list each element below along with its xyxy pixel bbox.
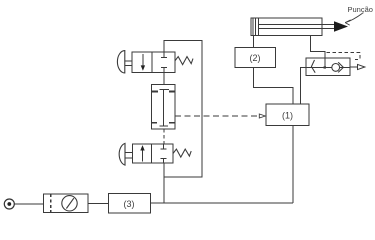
compressed-air source P xyxy=(4,199,14,209)
pilot arrowhead into box (1) xyxy=(259,114,265,118)
leader arrow from label to punch tip xyxy=(345,13,362,25)
box (2) xyxy=(235,47,276,67)
punch cylinder C1 xyxy=(251,18,334,36)
V1 left square with down arrow xyxy=(132,52,152,72)
wire flow control valve to box (1) xyxy=(301,68,307,105)
one-way flow control valve FCV xyxy=(306,58,350,75)
check valve circle and seat xyxy=(332,64,340,72)
junction at flow valve inlet xyxy=(324,66,326,68)
valve V1 (top push-button 3/2 valve) xyxy=(117,51,193,73)
wire punch cylinder rod side to flow control valve xyxy=(310,36,325,68)
pilot line (dashed) sensing cylinder to box (1) xyxy=(175,115,259,117)
service unit (filter/regulator) FR xyxy=(44,194,88,213)
wire box (2) to punch cylinder xyxy=(253,36,255,48)
sensing cylinder (vertical stem element) xyxy=(152,84,175,129)
V2 left square with up arrow xyxy=(132,144,151,163)
wire source to service unit xyxy=(14,203,43,205)
V2 push button xyxy=(119,143,125,165)
wire box (2) to box (1) xyxy=(254,68,293,104)
exhaust arrow xyxy=(350,64,365,69)
svg-text:(2): (2) xyxy=(250,53,261,63)
svg-text:Punção: Punção xyxy=(348,5,373,14)
wire service unit to box (3) xyxy=(88,203,108,205)
dashed pilot line at flow control valve xyxy=(327,52,360,59)
throttle restriction xyxy=(311,60,343,73)
V1 return spring xyxy=(175,57,193,65)
V1 push button xyxy=(117,51,124,73)
valve V2 (bottom push-button 3/2 valve) xyxy=(119,143,191,165)
V1 right square with blocked ports xyxy=(152,52,175,72)
box (3) xyxy=(108,194,150,214)
svg-text:(1): (1) xyxy=(282,111,293,121)
V2 return spring xyxy=(173,149,191,157)
box (1) xyxy=(266,104,309,126)
supply bus wire xyxy=(150,202,293,204)
wire V1 supply loop (top port up, over and down to junction) xyxy=(164,41,202,177)
svg-text:(3): (3) xyxy=(124,199,135,209)
wire V2 bottom port to bus xyxy=(163,163,165,203)
V2 right square with blocked ports xyxy=(151,144,173,163)
punch tip (tool) xyxy=(334,21,348,31)
wire V1 bottom port to sensing cylinder xyxy=(163,72,165,84)
wire bus to box (1) bottom port xyxy=(292,126,294,203)
dashed line sensing cylinder to valve V2 xyxy=(163,129,165,144)
